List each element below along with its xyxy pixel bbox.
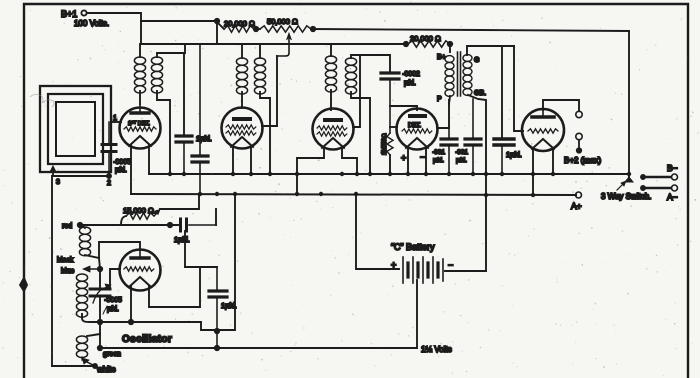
V5 plate lead to B+2 jack [543, 100, 579, 111]
audio transformer T4 secondary winding [463, 55, 472, 96]
switch blade A- [641, 186, 645, 190]
wire T3 primary bottom to V3 grid [330, 90, 332, 110]
svg-text:green: green [103, 351, 121, 358]
IF transformer T1 secondary coil [151, 57, 162, 93]
V4 filament leg right [425, 147, 427, 174]
tube V2 IF amplifier envelope [222, 108, 263, 149]
wire T1 secondary top [157, 44, 185, 57]
V1 filament leg left to bus2 [130, 145, 132, 194]
svg-text:1ST DET.: 1ST DET. [128, 120, 150, 128]
svg-text:DET.: DET. [408, 123, 421, 129]
wire bus2 drop x235 [218, 194, 235, 330]
V6 filament leg left [130, 286, 132, 322]
T4 core [458, 52, 461, 96]
V3 label smudge [325, 118, 341, 122]
C battery cells [403, 257, 443, 283]
capacitor C3 1 mfd [199, 44, 201, 154]
wire C9b riser [184, 231, 186, 267]
resistor R1 20,000 ohm [224, 26, 254, 32]
wire blue node to tuning cap [99, 269, 101, 287]
wire T2 primary bottom to V2 grid [241, 92, 243, 108]
svg-text:Oscillator: Oscillator [122, 334, 172, 345]
green bus wire to tap [100, 347, 417, 349]
wire C9 right plate riser [215, 209, 217, 225]
svg-text:1µfd.: 1µfd. [506, 152, 522, 159]
wire coil bottom bus y322 [82, 314, 201, 322]
node R3 right [448, 42, 452, 46]
node 2 [107, 174, 111, 178]
V2 filament leg right [250, 146, 252, 174]
tube V5 output envelope [522, 109, 564, 151]
B+2 jack stem [578, 140, 580, 149]
node R3 left [404, 42, 408, 46]
loop antenna outer turn [40, 86, 111, 172]
wire T4 secondary top G [467, 46, 514, 55]
svg-text:“C” Battery: “C” Battery [391, 242, 435, 252]
wire plate feed line to right [311, 29, 629, 31]
wire 3 down left side [51, 176, 53, 366]
V5 filament leg right [552, 148, 554, 174]
battery tap 1.5V down [416, 280, 418, 348]
wire green node down [99, 334, 101, 348]
wire B+ feed line y44 [141, 43, 406, 45]
wire T4 GB lead [468, 95, 486, 271]
V4 filament leg left [407, 147, 409, 174]
svg-text:−: − [448, 260, 453, 270]
wire black node down [99, 258, 100, 269]
V2 grid zigzag rows [226, 125, 256, 129]
wire cap bottom down [99, 296, 101, 322]
wire V4 plate to P [437, 100, 449, 128]
capacitor C2 1 mfd [176, 136, 192, 142]
resistor R3 20,000 ohm [408, 41, 450, 47]
tube V1 1st detector envelope [120, 108, 161, 149]
V2 filament [231, 137, 253, 147]
loop terminal 3 arrow [52, 170, 54, 176]
tube V6 oscillator envelope [120, 250, 161, 291]
svg-text:B+1: B+1 [61, 9, 77, 19]
3 way switch contact [628, 174, 630, 178]
wire T1 down [216, 21, 218, 44]
svg-text:1: 1 [113, 115, 117, 122]
svg-text:µfd.: µfd. [404, 80, 416, 87]
wire B+1 to feed corner [87, 13, 141, 44]
capacitor C5 .001 [448, 128, 450, 137]
wire loop bottom y176 [53, 175, 109, 177]
terminal A+ [576, 192, 582, 198]
svg-text:blue: blue [61, 268, 74, 275]
loop antenna middle turn [48, 94, 103, 164]
svg-text:1µfd.: 1µfd. [196, 136, 212, 143]
V6 filament leg right [149, 267, 200, 307]
wire y267 link [185, 266, 217, 268]
terminal B+1 [81, 10, 86, 15]
V4 filament [406, 138, 428, 148]
svg-text:GB.: GB. [474, 90, 486, 97]
V1 plate bar [131, 111, 149, 114]
V5 filament [532, 139, 554, 149]
junction dots bus1 [168, 172, 631, 176]
wire T1 primary top [139, 44, 141, 57]
wire bus2 to battery plus [356, 195, 399, 269]
svg-text:µfd.: µfd. [456, 157, 467, 164]
wire T3 secondary bottom [351, 92, 370, 174]
wire V6 grid to cap [110, 269, 120, 289]
V6 filament [129, 277, 151, 287]
IF transformer T1 primary coil [134, 57, 145, 93]
svg-text:50,000 Ω: 50,000 Ω [267, 17, 298, 26]
svg-text:−: − [420, 152, 425, 162]
wire R5 to bus1 [389, 155, 391, 174]
capacitor C7 1 mfd [494, 139, 514, 145]
bus wire 1 (B-) y174 [149, 173, 629, 175]
wire V6 plate loop [99, 242, 140, 258]
svg-text:·001: ·001 [455, 149, 468, 156]
svg-text:2: 2 [107, 180, 111, 187]
R4 left lead to red wire [121, 216, 126, 225]
V3 filament leg right jog [342, 147, 357, 174]
wire V3 plate riser [353, 55, 360, 127]
V1 filament [129, 136, 151, 146]
svg-text:1½ Volts: 1½ Volts [421, 345, 452, 354]
svg-text:B+: B+ [437, 54, 446, 61]
V2 filament leg left [232, 146, 234, 174]
wire G drop to V5 grid [514, 46, 523, 131]
wire T2 primary top [241, 44, 243, 58]
svg-text:G: G [474, 57, 479, 64]
V3 grid zigzag rows [317, 126, 347, 130]
wire right feed drop [628, 31, 630, 174]
svg-text:20,000 Ω: 20,000 Ω [410, 34, 441, 43]
terminal A- [672, 185, 678, 191]
V4 grid zigzag [402, 129, 432, 133]
node R1-R2 [254, 27, 258, 31]
node R2 right [311, 27, 315, 31]
oscillator grid coil (blue) [76, 274, 87, 317]
V3 filament [322, 138, 344, 148]
wire y322 jog down to green bus [201, 322, 218, 330]
wire T1 secondary top to C2 [183, 53, 185, 134]
wire T4 primary bottom to plate [449, 96, 450, 104]
V5 filament leg left [532, 148, 534, 196]
wire T2 secondary bottom [260, 92, 270, 174]
scan artifact squiggle [30, 94, 54, 107]
svg-text:·001: ·001 [432, 149, 445, 156]
svg-text:3 Way Switch.: 3 Way Switch. [601, 192, 651, 201]
V1 filament leg right to bus1 [148, 145, 150, 174]
wire T1 elbow to R1 [217, 22, 224, 29]
svg-text:B+2 (max): B+2 (max) [564, 156, 601, 165]
wire T3 primary top [330, 44, 332, 56]
wire battery minus to GB riser [445, 270, 486, 272]
loop antenna inner turn [56, 102, 95, 156]
capacitor C9 1 mfd series [181, 219, 187, 231]
svg-text:20,000 Ω: 20,000 Ω [224, 19, 255, 28]
wire R4 node to bus2 [160, 194, 199, 209]
V1 grid zigzag [124, 127, 156, 131]
V6 plate bar [131, 256, 149, 259]
svg-text:1µfd.: 1µfd. [174, 237, 190, 244]
B+2 jack top circle [576, 111, 582, 117]
svg-text:µfd.: µfd. [107, 306, 119, 313]
wire white lead [52, 365, 95, 367]
svg-text:100 Volts.: 100 Volts. [74, 19, 109, 28]
V5 grid zigzag [528, 129, 558, 133]
wire T2 secondary top [259, 44, 261, 58]
capacitor C6 .001 [472, 99, 474, 137]
wire grid stub to V4 top [390, 106, 417, 110]
svg-text:P: P [437, 96, 442, 103]
loop terminal 1 wire to grid [111, 121, 121, 123]
variable capacitor C10 .0005 [90, 289, 110, 296]
svg-text:A−: A− [667, 192, 678, 202]
oscillator pickup coil (green) [76, 336, 87, 358]
switch blade B- [641, 175, 645, 179]
capacitor C11 1 mfd osc [216, 267, 218, 289]
V4 label smudge [410, 114, 425, 118]
svg-text:1MEGΩ: 1MEGΩ [382, 133, 388, 155]
svg-text:A+: A+ [571, 201, 582, 211]
node T1 [215, 19, 219, 23]
svg-text:·0005: ·0005 [104, 297, 122, 304]
wire T3 secondary top to grid condenser [351, 55, 390, 71]
red lead wire [78, 223, 82, 227]
wire upper tap y21 [141, 20, 217, 22]
svg-text:µfd.: µfd. [433, 157, 444, 164]
svg-text:µfd.: µfd. [115, 167, 127, 174]
wire red tap [81, 225, 85, 228]
IF transformer T3 primary coil [325, 56, 336, 92]
audio transformer T4 primary winding [445, 56, 454, 97]
R4 right arrow [154, 212, 158, 216]
bus wire 2 (A) y194 [131, 194, 576, 195]
black tap wire [85, 255, 99, 258]
capacitor C4 .0002 grid condenser [381, 73, 399, 79]
wire V4 grid side lead [390, 126, 397, 128]
junction dots bus2 [198, 192, 535, 197]
V3 filament leg left jog [297, 147, 324, 194]
wire coil2 top tap [87, 322, 100, 336]
wire T1 primary bottom to tube V1 plate [139, 91, 141, 104]
wire V2 plate riser [262, 56, 277, 126]
wire T1 secondary bottom [157, 91, 170, 174]
wire G drop to C7 [501, 46, 503, 137]
tube V3 IF amplifier envelope [313, 109, 354, 150]
green label [98, 346, 102, 350]
svg-text:white: white [96, 365, 116, 374]
svg-text:red: red [62, 223, 72, 230]
IF transformer T2 secondary coil [254, 58, 265, 94]
terminal B- [672, 174, 678, 180]
IF transformer T2 primary coil [236, 58, 247, 94]
V2 label smudge [234, 117, 250, 121]
potentiometer wiper arrow on R2 [277, 37, 289, 56]
svg-text:·0002: ·0002 [402, 71, 420, 78]
wire R3 to transformer primary top [449, 44, 451, 52]
svg-text:+: + [401, 153, 406, 163]
tube V4 detector envelope [397, 109, 438, 150]
B+2 jack lower circle [576, 133, 582, 139]
IF transformer T3 secondary coil [345, 58, 356, 94]
arrow marker on frame left [20, 277, 28, 292]
svg-text:+: + [391, 260, 396, 270]
grid leak resistor R5 1 meg [387, 133, 393, 155]
V6 grid zigzag [124, 267, 154, 271]
svg-text:3: 3 [56, 179, 60, 186]
svg-text:B−: B− [667, 163, 678, 173]
svg-text:·0005: ·0005 [113, 159, 131, 166]
resistor R2 50,000 ohm [260, 26, 311, 32]
V5 plate bar [532, 115, 554, 119]
capacitor C1 .0005 across loop [108, 122, 110, 143]
oscillator coupling coil upper (red-black) [79, 227, 90, 256]
